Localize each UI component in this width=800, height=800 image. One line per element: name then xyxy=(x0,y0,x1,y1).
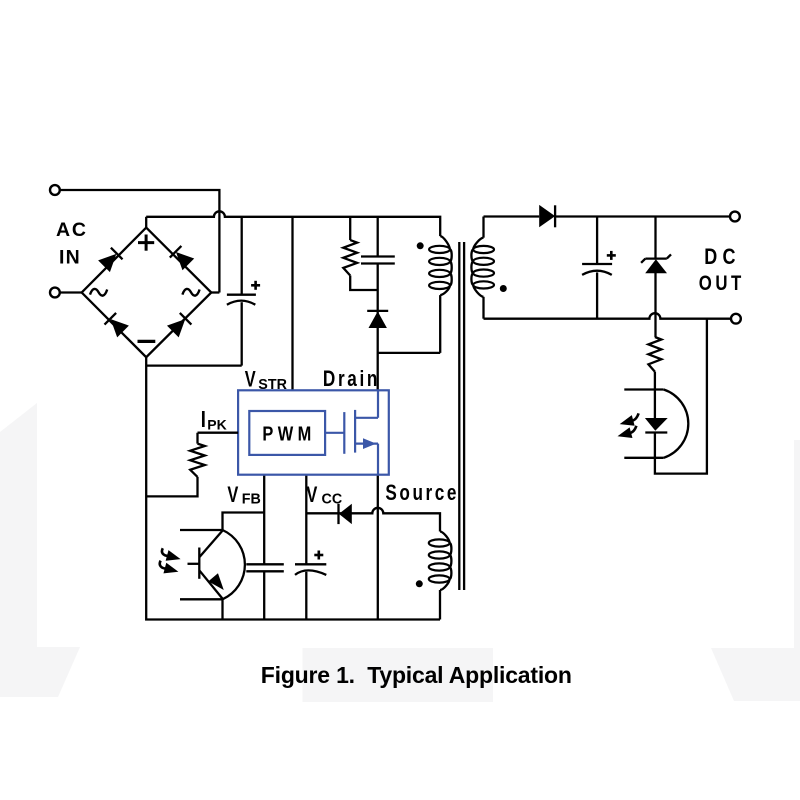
svg-text:Drain: Drain xyxy=(323,367,380,392)
svg-text:AC: AC xyxy=(56,219,88,241)
svg-text:PK: PK xyxy=(207,417,226,433)
svg-text:V: V xyxy=(306,482,317,507)
svg-text:V: V xyxy=(245,367,256,392)
svg-text:DC: DC xyxy=(704,245,740,269)
svg-text:Figure 1. Typical Application: Figure 1. Typical Application xyxy=(261,662,572,688)
svg-text:FB: FB xyxy=(242,492,261,508)
svg-text:IN: IN xyxy=(59,246,81,268)
svg-text:PWM: PWM xyxy=(262,422,315,445)
svg-text:Source: Source xyxy=(385,481,459,506)
svg-text:CC: CC xyxy=(322,492,343,508)
svg-text:OUT: OUT xyxy=(699,272,745,295)
svg-text:V: V xyxy=(227,482,238,507)
svg-text:STR: STR xyxy=(258,377,287,393)
svg-text:I: I xyxy=(201,407,206,432)
